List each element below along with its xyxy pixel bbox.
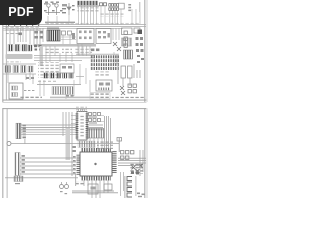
label NF xyxy=(62,4,67,6)
capacitors C22-C25 xyxy=(35,31,44,39)
wires into left cluster xyxy=(18,28,26,42)
capacitors C70-C74 grid xyxy=(121,151,134,160)
capacitor C20 xyxy=(19,33,22,36)
wire y54 xyxy=(76,53,119,56)
vertical gray band left-mid xyxy=(40,46,43,66)
gray bar shield left xyxy=(6,54,33,59)
vertical wire x22 xyxy=(24,139,27,144)
IC U10 narrow xyxy=(77,112,87,141)
capacitor C44 xyxy=(62,66,66,69)
wire drops to bus xyxy=(48,6,140,25)
labels near Q1 xyxy=(44,3,48,5)
resistors R30-R34 comb row xyxy=(44,73,74,78)
labels under U100 xyxy=(74,181,84,186)
resistor network RN1 row4 xyxy=(90,67,119,70)
transistors Q10-Q12 xyxy=(132,164,143,173)
label under left combs xyxy=(15,183,20,184)
small marks left band xyxy=(6,33,22,35)
U100 right pins xyxy=(112,151,116,173)
resistor row left R20s xyxy=(8,45,13,52)
connector CN4 pin labels xyxy=(22,155,25,173)
resistor network RN1 row3 xyxy=(90,63,119,66)
text block left-mid xyxy=(38,62,60,78)
top-right boxes xyxy=(122,28,133,35)
big IC U100 xyxy=(80,152,112,176)
cluster below U6 xyxy=(90,93,110,100)
capacitors column x73 xyxy=(73,146,76,173)
wire y190 xyxy=(72,190,114,193)
page 2 inner left frame xyxy=(6,108,9,198)
left resistor combs row2 xyxy=(5,66,11,73)
PDF badge xyxy=(0,0,42,25)
wires U3 area xyxy=(61,35,76,44)
labels under RN1 xyxy=(94,72,110,77)
resistor grid R-pack xyxy=(109,4,119,11)
pin number labels under CN1 xyxy=(78,7,99,11)
diodes D5-D8 on band xyxy=(34,45,42,51)
resistor network RN1 row1 xyxy=(90,55,119,58)
resistor R5 marks column xyxy=(128,4,131,11)
left connector lower xyxy=(15,153,20,176)
dashed wire y90 xyxy=(24,90,34,91)
connector left page2 xyxy=(16,123,21,139)
capacitors C30-C33 xyxy=(136,37,144,46)
wire under CN1 xyxy=(77,5,99,8)
box U13 xyxy=(104,184,112,190)
IC U2 small box xyxy=(119,3,125,9)
bus page2 upper xyxy=(21,125,103,135)
wires U10 top/left xyxy=(71,109,85,128)
bus page2 lower xyxy=(20,158,76,175)
labels under crystals xyxy=(60,191,67,194)
left verticals xyxy=(10,28,43,46)
page 1 right frame xyxy=(143,0,146,102)
capacitors C60-C65 xyxy=(89,113,101,122)
capacitors C40-C41 xyxy=(91,49,99,52)
right bottom cluster transistors xyxy=(120,86,125,95)
bottom-right corner marks xyxy=(137,193,145,198)
wires left bottom xyxy=(3,64,36,84)
U100 bottom pins xyxy=(81,177,111,181)
relays inside U4 xyxy=(79,31,92,40)
left combs bottom xyxy=(14,176,23,182)
capacitors C75-C76 xyxy=(131,172,139,175)
part inside U12 xyxy=(91,187,96,190)
page 1 bottom frame xyxy=(2,99,146,102)
page 2 left frame xyxy=(1,108,4,198)
long wire xyxy=(37,83,81,86)
comb cluster bottom center xyxy=(52,87,73,95)
bus A horizontal lines xyxy=(3,24,146,30)
bus lines mid xyxy=(34,55,95,61)
wire vertical right xyxy=(139,2,142,12)
squares column right mid xyxy=(124,31,127,47)
dark squares right xyxy=(138,30,143,35)
crystal circles bottom xyxy=(62,182,67,184)
wire right of C80-C83 xyxy=(135,176,138,196)
net labels on bus A left xyxy=(4,27,40,31)
labels above U100 xyxy=(78,141,95,148)
dense cluster right page2 xyxy=(129,163,143,174)
parts right of U3 xyxy=(62,31,66,35)
resistor network RN1 row2 xyxy=(90,59,119,62)
capacitors C50-C53 xyxy=(128,84,136,93)
marks under gray bar xyxy=(7,61,21,63)
box U4 xyxy=(77,29,94,44)
bottom wires under U100 xyxy=(84,180,108,198)
box with hatch right xyxy=(122,38,132,46)
box bottom-left with parts xyxy=(9,83,23,99)
transistors X right xyxy=(113,42,121,51)
value labels under C10-C13 xyxy=(100,12,124,17)
wires bottom-center xyxy=(40,44,90,99)
wires U11 to U100 xyxy=(88,116,104,149)
IC U3 dense xyxy=(47,30,60,41)
small boxes xyxy=(60,64,74,73)
page 1 left frame xyxy=(1,0,4,102)
wires x114-117 xyxy=(114,52,117,64)
connector CN1 pins row xyxy=(78,1,98,5)
cluster below band xyxy=(44,48,60,54)
bottom text strip xyxy=(20,96,42,98)
parts inside U5 xyxy=(98,31,110,38)
U100 left pins xyxy=(77,154,81,175)
box U12 xyxy=(88,184,98,194)
wires right of U10 xyxy=(89,117,97,124)
wire y76 xyxy=(76,75,84,78)
capacitor row C10-C13 xyxy=(100,3,107,6)
tall parts right-mid xyxy=(121,66,132,78)
page 2 right frame xyxy=(143,108,146,198)
capacitors C34-C35 xyxy=(136,49,144,63)
page 2 top frame xyxy=(2,107,146,110)
net labels above bus A xyxy=(44,22,140,24)
diode D1 xyxy=(67,3,71,15)
connector CN3 pin labels xyxy=(23,125,26,139)
verticals mid page2 xyxy=(63,112,72,176)
verticals center xyxy=(46,46,90,62)
box U5 xyxy=(96,29,111,44)
marks above U3 xyxy=(47,28,59,30)
junction ticks on bus A xyxy=(8,23,39,26)
wires x113-119 xyxy=(113,28,119,40)
wire left of C80-C83 xyxy=(124,176,127,198)
bus wires x104-106 xyxy=(105,116,107,152)
transistor Q1 group top xyxy=(46,4,61,15)
capacitor C45 xyxy=(68,66,72,69)
capacitor column bottom right xyxy=(127,177,132,198)
right bus lines page2 xyxy=(118,158,146,166)
wire y192 xyxy=(72,191,118,194)
capacitors C46-C47 xyxy=(66,95,74,97)
dark cluster right xyxy=(124,50,133,59)
dashed wire y81 xyxy=(38,80,56,83)
wire y177 xyxy=(5,176,78,179)
IC U11 xyxy=(88,129,104,139)
resonator X1 with long wire xyxy=(7,142,11,146)
wire x75 xyxy=(74,174,77,186)
capacitors C26-C27 xyxy=(26,77,29,79)
wires x140-143 xyxy=(140,150,143,176)
U100 top pins xyxy=(81,148,111,152)
value labels around Q1/Q2 xyxy=(44,2,75,24)
gray band mid xyxy=(34,44,96,47)
box U6 xyxy=(96,80,112,91)
wires to capacitor column xyxy=(121,172,124,196)
page 1 inner left frame xyxy=(5,0,8,100)
page 1 bottom edge xyxy=(2,101,146,104)
title block strip xyxy=(50,97,90,99)
